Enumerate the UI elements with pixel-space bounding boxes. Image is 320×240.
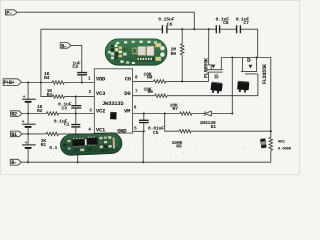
svg-text:GND: GND	[117, 128, 127, 135]
wire VM branch to R5	[165, 114, 271, 132]
svg-text:5: 5	[134, 125, 137, 131]
svg-text:8: 8	[135, 75, 138, 81]
node C2 rail	[77, 161, 79, 163]
svg-text:RS1: RS1	[278, 140, 285, 144]
wire hidden C2 stub to rail	[77, 155, 79, 162]
node P- drop	[193, 28, 195, 30]
node B-/battery	[27, 161, 29, 163]
svg-text:R3: R3	[47, 92, 53, 98]
svg-text:7: 7	[135, 89, 138, 95]
wire D1 vertical to FET midpoint	[231, 58, 233, 114]
right pads	[155, 43, 161, 47]
node C3 top	[75, 96, 77, 98]
svg-text:VC3: VC3	[96, 90, 106, 97]
black chip right	[87, 138, 97, 145]
resistor R9	[171, 29, 184, 81]
svg-text:0.1: 0.1	[49, 145, 57, 151]
battery column wire	[27, 83, 29, 163]
svg-text:Q2: Q2	[247, 57, 252, 62]
svg-text:C5: C5	[153, 130, 159, 136]
battery cell BT3	[22, 95, 36, 102]
wire pin6 VM row	[133, 113, 233, 115]
node Q1 source	[208, 28, 210, 30]
wire top bus right segment to Q2 drop	[241, 29, 258, 57]
svg-text:C6: C6	[167, 21, 173, 27]
node GND rail	[142, 161, 144, 163]
wire top bus left segment	[41, 28, 162, 30]
capacitor C6	[158, 16, 174, 33]
wire B- to C4	[71, 45, 81, 72]
photo Q1 package	[210, 82, 223, 94]
wire right side drop to RS1	[270, 58, 272, 163]
svg-text:D0: D0	[124, 90, 131, 97]
battery cell BT2	[22, 120, 36, 127]
connector B- top	[60, 43, 71, 50]
photo U1 chip die	[110, 112, 117, 120]
capacitor C3	[58, 97, 81, 114]
svg-text:R2: R2	[37, 108, 43, 114]
svg-text:FL9955K: FL9955K	[262, 63, 268, 84]
capacitor C5	[139, 114, 164, 136]
resistor R4	[44, 71, 64, 84]
small part left of chips	[132, 48, 136, 55]
wire row3 B2 to pin3	[22, 113, 94, 115]
svg-text:4: 4	[88, 127, 91, 133]
svg-text:1: 1	[88, 76, 91, 82]
svg-text:VDD: VDD	[96, 76, 106, 83]
svg-text:R4: R4	[44, 75, 50, 81]
wire pin5 GND row and drop to rail	[133, 131, 144, 162]
svg-text:+: +	[23, 95, 26, 100]
node FET midpoint	[231, 56, 233, 58]
wire row1 P+B+ to VDD pin1	[22, 82, 95, 84]
node P+B+/battery	[27, 81, 29, 83]
connector B1	[11, 131, 22, 138]
node row1/left vertical	[40, 81, 42, 83]
diode D1 1N4148	[200, 111, 217, 130]
node D1 top corner	[231, 112, 233, 114]
bottom edge silk	[120, 60, 123, 62]
photo bottom PCB board	[60, 132, 122, 155]
capacitor C1	[54, 114, 81, 134]
black chip left	[72, 139, 84, 146]
border frame	[0, 0, 299, 174]
svg-text:2: 2	[89, 89, 92, 95]
svg-text:0.15uF: 0.15uF	[158, 16, 174, 22]
svg-text:C8: C8	[223, 20, 229, 26]
node B2/battery	[27, 112, 29, 114]
svg-text:C0: C0	[125, 76, 132, 83]
svg-text:6: 6	[134, 105, 137, 111]
left end	[63, 144, 66, 147]
resistor R2	[37, 104, 59, 115]
top edge silk pads	[116, 42, 119, 44]
under chips pads	[74, 149, 78, 152]
svg-text:B-: B-	[61, 43, 67, 49]
resistor R6	[143, 86, 167, 97]
node C3 bottom	[75, 112, 77, 114]
svg-text:R5: R5	[176, 144, 182, 150]
svg-text:3: 3	[89, 108, 92, 114]
svg-text:Q1: Q1	[215, 73, 220, 78]
svg-text:P+B+: P+B+	[4, 80, 15, 86]
wire row4 B1 to pin4	[22, 133, 94, 135]
node C5 top	[143, 112, 145, 114]
svg-text:FL9955K: FL9955K	[203, 57, 209, 78]
svg-text:C4: C4	[72, 64, 78, 70]
connector B2	[11, 111, 22, 118]
node R5/RS1	[270, 130, 272, 132]
battery cell BT1	[22, 141, 36, 148]
svg-text:JW3313S: JW3313S	[102, 100, 124, 107]
node R5 branch	[164, 112, 166, 114]
resistor RS1 0.005R	[269, 137, 292, 151]
gold fingers right end	[113, 137, 115, 148]
node C4/pin1	[81, 81, 83, 83]
op-amp U1 JW3313S IC box	[94, 69, 132, 135]
svg-text:D1: D1	[211, 124, 217, 130]
connector B- bottom	[10, 159, 21, 166]
photo top PCB board	[105, 39, 167, 65]
node Q2 drain	[256, 56, 258, 58]
svg-text:R9: R9	[171, 51, 177, 57]
svg-text:B-: B-	[11, 160, 17, 166]
wire top bus middle segment C6 to C8	[167, 28, 216, 30]
wire FET drain bus	[221, 57, 270, 59]
svg-text:R6: R6	[148, 89, 154, 95]
resistor R5	[172, 130, 192, 150]
connector P-	[5, 10, 17, 16]
photo Q2 package	[237, 81, 249, 93]
svg-text:P-: P-	[6, 10, 12, 16]
wire top bus segment C8 to C7	[220, 28, 237, 30]
right half pad rows	[99, 137, 102, 140]
transistor Q2 FL9955K	[241, 57, 268, 84]
svg-text:B1: B1	[11, 132, 17, 138]
node B1/battery	[27, 133, 29, 135]
svg-text:C7: C7	[243, 20, 249, 26]
left end pads	[108, 51, 111, 54]
wire bottom rail	[21, 161, 270, 163]
wire pin7 row to Q2 gate	[133, 74, 258, 96]
photo RS1 chip resistor	[260, 138, 267, 148]
wire row2 R3 to pin2	[65, 96, 95, 98]
wire P- to top bus	[17, 12, 194, 29]
svg-text:R8: R8	[147, 74, 153, 80]
node R9 top	[181, 28, 183, 30]
bottom pin row under chips	[136, 57, 155, 60]
resistor R3	[47, 88, 65, 98]
center chips	[138, 46, 146, 55]
svg-text:+: +	[25, 141, 28, 146]
transistor Q1 FL9955K	[203, 29, 222, 81]
node R9 bottom	[181, 80, 183, 82]
svg-text:C3: C3	[62, 106, 68, 112]
svg-text:VM: VM	[124, 108, 131, 115]
svg-text:0.005R: 0.005R	[278, 148, 292, 152]
connector P+B+	[3, 79, 22, 86]
capacitor C7	[236, 16, 250, 33]
svg-text:VC1: VC1	[96, 126, 106, 133]
svg-text:B2: B2	[11, 111, 17, 117]
junction node dots	[27, 28, 272, 163]
resistor R7	[170, 103, 192, 116]
svg-text:R1: R1	[41, 142, 47, 148]
svg-text:R7: R7	[172, 106, 178, 112]
svg-text:VC2: VC2	[96, 108, 106, 115]
capacitor C8	[216, 16, 230, 33]
resistor R1	[41, 132, 59, 148]
wire pin8 row	[133, 80, 209, 82]
capacitor C4	[72, 60, 87, 82]
node C5/GND	[143, 130, 145, 132]
wire left vertical from bus to R3	[41, 29, 52, 96]
resistor R8	[143, 72, 165, 84]
svg-text:+: +	[22, 120, 25, 125]
svg-text:C1: C1	[64, 122, 70, 128]
